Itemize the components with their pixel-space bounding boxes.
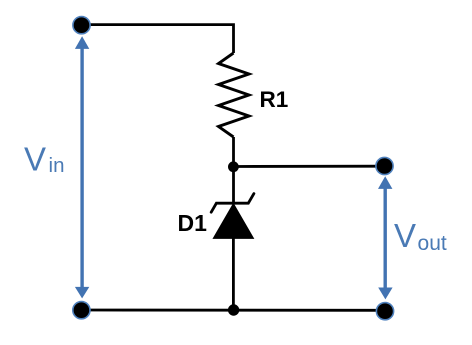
Vout dimension arrow shaft [384,188,387,289]
svg-text:Vin: Vin [24,141,64,178]
wire: bottom horizontal from node B through F to node D [82,309,386,312]
wire: top horizontal from node A to resistor top corner [82,25,234,53]
node C terminal dot mid-right [376,157,393,174]
resistor R1 zigzag [219,53,250,137]
node F junction dot (diode/ground rail) [228,304,239,315]
node A terminal dot top-left [73,17,90,34]
Vin dimension arrow shaft [80,48,83,289]
diode D1 triangle (anode, pointing up) [213,204,253,239]
wire: resistor bottom to zener cathode bar [232,137,235,203]
svg-text:R1: R1 [260,87,289,112]
Vout arrowhead up [378,176,392,189]
Vin arrowhead down [75,287,89,299]
Vout arrowhead down [378,288,392,300]
svg-text:Vout: Vout [394,217,447,255]
wire: diode anode down to junction F [232,238,235,310]
svg-text:D1: D1 [178,210,208,236]
node E junction dot (resistor/diode/output) [228,161,239,172]
node D terminal dot bottom-right [376,303,393,320]
wire: middle horizontal from junction E to node C [233,165,384,168]
Vin arrowhead up [75,36,89,49]
diode D1 zener cathode bar with bent tips [211,194,254,213]
node B terminal dot bottom-left [73,302,90,319]
